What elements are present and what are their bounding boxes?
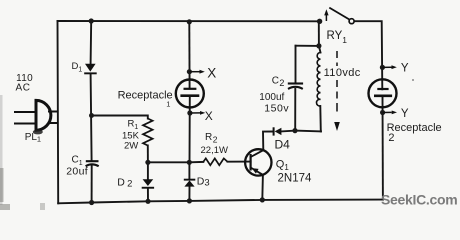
relay actuation dashed line <box>336 51 338 112</box>
svg-text:C2: C2 <box>272 76 285 89</box>
junction dot top rail D1 <box>89 18 94 23</box>
switch blade <box>329 8 350 20</box>
wire D4 to node B <box>281 130 295 133</box>
junction dot node D3 <box>187 160 192 165</box>
wire node B bottom <box>295 130 321 133</box>
diode D1 <box>84 64 97 75</box>
wire C2 upper lead <box>295 46 297 84</box>
junction dot top rail receptacle1 <box>187 19 192 24</box>
wire Q1 emitter down <box>261 175 264 200</box>
switch fixed contact <box>349 19 354 24</box>
svg-text:Receptacle: Receptacle <box>387 122 442 134</box>
svg-text:Receptacle: Receptacle <box>118 89 173 101</box>
receptacle 1 <box>176 80 204 108</box>
wire R1 top feed <box>92 116 148 119</box>
junction dot C1 bottom <box>89 200 94 205</box>
relay actuation arrowhead <box>334 122 340 131</box>
resistor R1 <box>143 119 153 146</box>
svg-text:AC: AC <box>16 83 31 94</box>
wire switch pole to coil node <box>318 21 320 46</box>
wire right rail upper <box>354 21 382 89</box>
svg-text:110vdc: 110vdc <box>324 67 361 79</box>
wire D1 to C1 <box>91 74 92 161</box>
svg-text:D4: D4 <box>275 138 291 152</box>
switch armature arrow <box>324 9 328 21</box>
svg-text:X: X <box>205 109 213 123</box>
node X upper <box>187 69 205 74</box>
wire C1 to bottom rail <box>91 166 93 203</box>
diode D4 <box>273 127 282 135</box>
node X lower <box>187 110 205 115</box>
svg-text:Y: Y <box>401 108 409 120</box>
receptacle 2 <box>369 79 397 107</box>
diode D2 <box>142 179 154 189</box>
junction dot node R1 D2 <box>145 160 150 165</box>
wire C2 lower lead <box>294 89 296 131</box>
wire top rail <box>58 20 320 22</box>
svg-text:D2: D2 <box>117 176 132 189</box>
svg-text:2: 2 <box>388 132 394 144</box>
wire R2 to Q1 base <box>228 161 251 163</box>
svg-text:R2: R2 <box>205 132 218 145</box>
svg-text:X: X <box>207 66 216 81</box>
junction dot coil top node <box>316 43 321 48</box>
svg-text:2W: 2W <box>124 141 138 152</box>
node Y upper <box>380 65 397 70</box>
svg-text:Y: Y <box>401 62 409 74</box>
scan edge artifacts <box>0 95 3 205</box>
wire bottom rail <box>58 200 383 204</box>
wire coil top lead <box>319 46 321 53</box>
transistor Q1 <box>245 149 271 175</box>
wire receptacle1 stem lower <box>189 96 191 163</box>
wire receptacle1 stem upper <box>188 22 190 89</box>
svg-text:PL1: PL1 <box>25 132 41 144</box>
capacitor C2 <box>288 84 303 89</box>
relay coil RY1 <box>316 53 320 107</box>
resistor R2 <box>203 158 227 165</box>
capacitor C1 <box>86 161 99 166</box>
svg-text:2N174: 2N174 <box>278 173 312 185</box>
junction dot node B <box>292 128 297 133</box>
junction dot Q1 emitter bottom <box>260 197 265 202</box>
svg-text:22,1W: 22,1W <box>201 145 228 156</box>
wire D3 leads <box>188 162 190 179</box>
wire right rail lower <box>382 96 384 200</box>
plug PL1 <box>14 100 58 134</box>
svg-text:SeekIC.com: SeekIC.com <box>381 191 457 207</box>
wire D1 branch upper <box>90 21 93 64</box>
svg-text:D3: D3 <box>197 175 210 188</box>
diode D3 <box>184 179 196 187</box>
switch pole dot <box>317 19 322 24</box>
wire left rail <box>57 21 60 203</box>
svg-text:1: 1 <box>166 99 170 108</box>
wire coil bottom lead <box>319 106 322 131</box>
svg-text:150v: 150v <box>264 103 289 115</box>
junction dot R1 feed <box>89 113 94 118</box>
wire C2 top link <box>296 45 319 47</box>
wire node row D2 D3 R2 <box>148 161 203 163</box>
svg-text:20uf: 20uf <box>66 166 88 178</box>
svg-text:100uf: 100uf <box>259 92 284 103</box>
wire D2 leads <box>147 162 149 179</box>
junction dot D3 bottom <box>187 198 192 203</box>
junction dot D2 bottom <box>145 199 150 204</box>
wire R1 bottom lead <box>147 146 149 163</box>
wire Q1 collector <box>263 132 273 151</box>
speckle <box>412 79 414 81</box>
node Y lower <box>380 110 397 115</box>
